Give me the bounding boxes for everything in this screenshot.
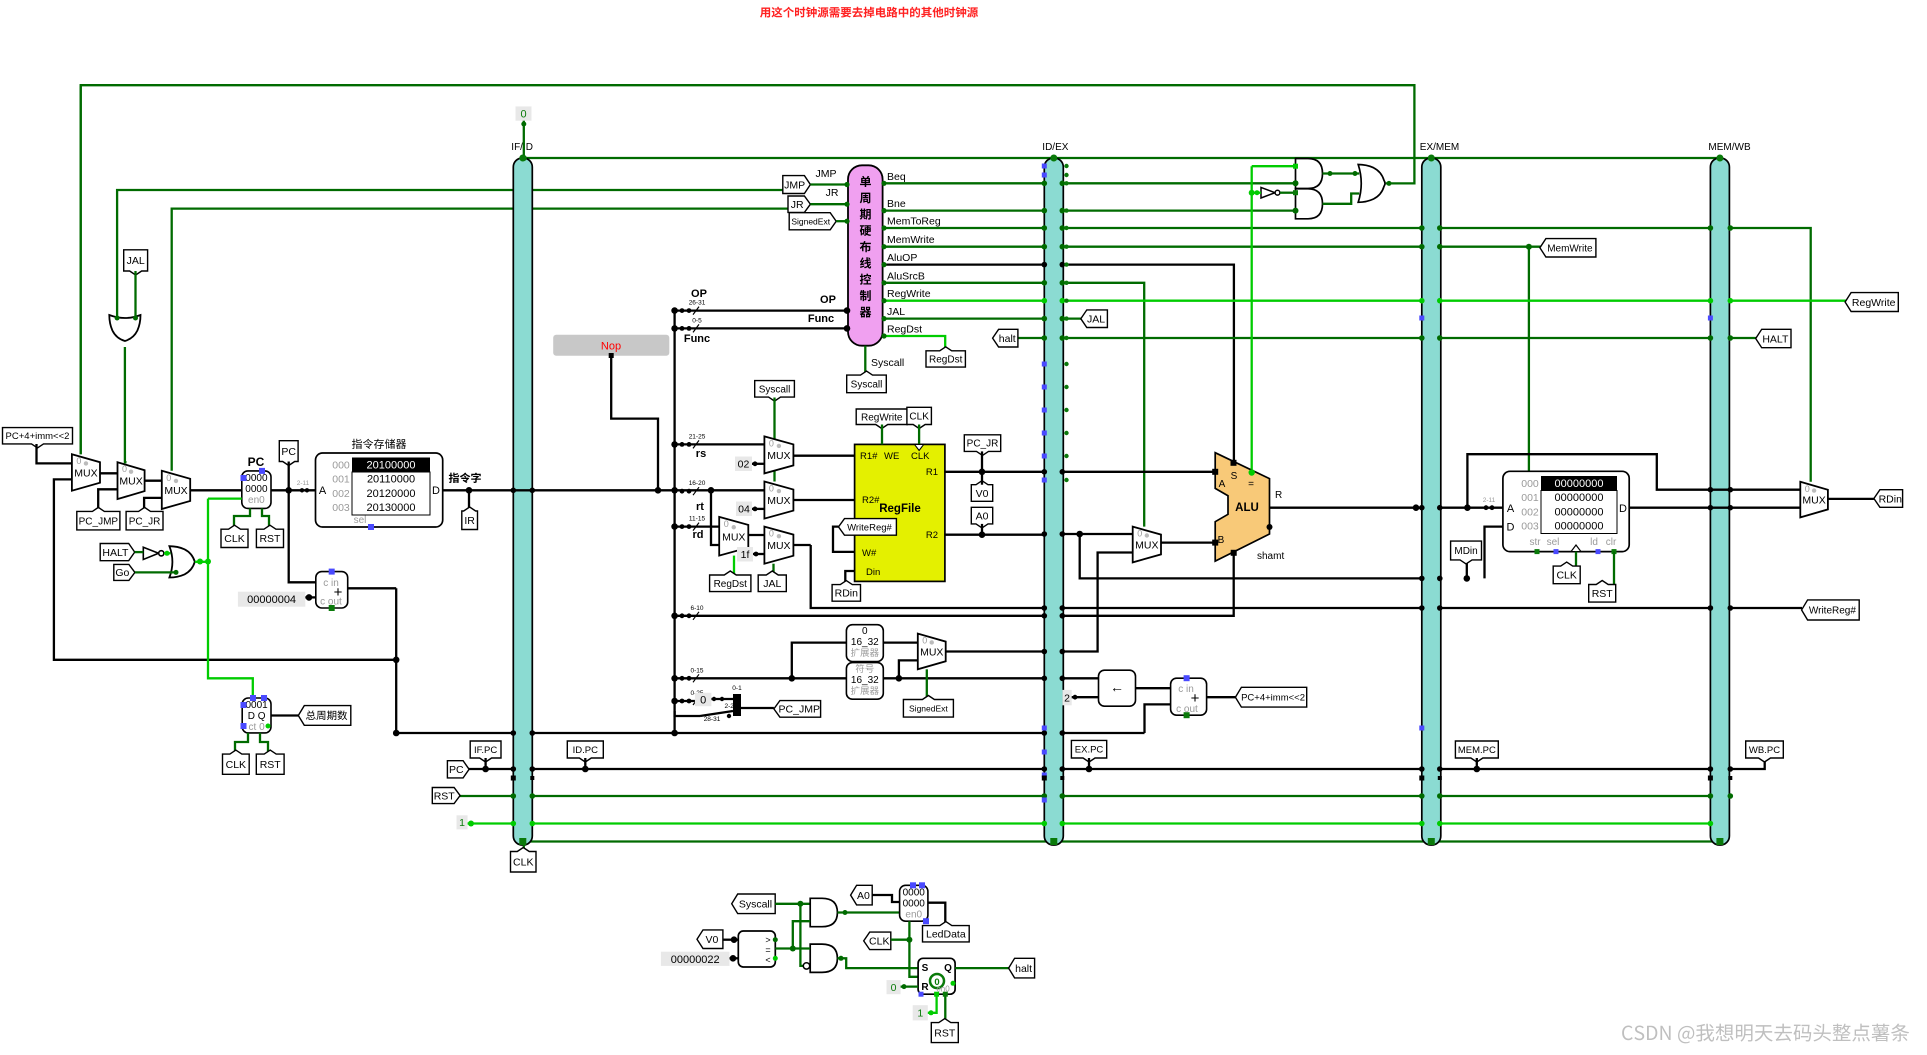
wire counter clk stem [235,733,248,755]
wire halt to not [135,551,144,553]
wire shift out [1136,687,1171,689]
wire mem clk stem [1575,552,1577,567]
svg-text:21-25: 21-25 [689,433,706,440]
svg-text:MUX: MUX [767,495,790,507]
svg-text:RegDst: RegDst [714,579,748,590]
svg-text:A: A [319,485,327,497]
svg-text:RST: RST [260,759,282,771]
tunnel PC above [279,441,298,466]
svg-text:00000022: 00000022 [671,954,720,966]
svg-text:Syscall: Syscall [739,899,772,911]
wire mem A wire [1440,507,1503,509]
mux writeback [1800,482,1828,518]
register LedData [900,885,928,921]
svg-text:0: 0 [520,109,526,121]
svg-text:<: < [765,955,770,965]
svg-text:00000000: 00000000 [1555,506,1604,518]
wire instr vertical bus [673,311,675,733]
wire eq to not [1252,192,1261,194]
svg-text:ld: ld [1590,537,1598,548]
wire mem bypass [1467,454,1800,508]
and-gate bne [1296,189,1323,219]
tunnel ID.PC [567,741,603,762]
svg-text:003: 003 [1521,521,1539,533]
wire or out [1385,182,1387,184]
instruction memory box [316,453,443,527]
wire and1b out [837,911,899,913]
svg-text:R2#: R2# [862,495,880,506]
svg-text:AluOP: AluOP [887,252,917,264]
wire MUX1 sel drop [80,85,82,454]
svg-text:0000: 0000 [245,484,268,495]
tunnel Syscall above mux [755,381,795,402]
constant 00000004 [238,592,305,607]
tunnel RST left [432,788,460,804]
svg-text:OP: OP [691,288,707,300]
tunnel HALT [100,544,135,561]
wire const1 rail [467,822,1711,824]
wire CLK rail [524,840,1719,842]
svg-text:SignedExt: SignedExt [791,216,830,226]
svg-text:PC_JMP: PC_JMP [779,704,820,716]
svg-text:1: 1 [459,817,465,829]
svg-text:RegWrite: RegWrite [887,288,931,300]
wire alu R out [1270,507,1422,509]
svg-text:en0: en0 [905,909,922,920]
not-gate halt inverter [143,547,158,559]
tunnel RST counter [256,750,284,774]
wire latch Q out [955,967,1009,969]
svg-text:Nop: Nop [601,341,621,353]
tunnel WriteReg# source [839,519,897,536]
svg-text:JR: JR [791,199,804,211]
svg-text:0: 0 [1805,484,1810,494]
svg-text:D: D [1619,503,1627,515]
svg-text:002: 002 [1521,506,1539,518]
alu ALU [1215,453,1269,561]
wire imm up-step to zero ext [792,643,847,679]
svg-text:=: = [1248,479,1254,490]
wire JR rail [172,209,794,471]
svg-text:MemWrite: MemWrite [1547,243,1593,254]
wire eq vertical [1251,166,1253,470]
or-gate jump-select OR [109,315,140,341]
svg-text:04: 04 [738,504,750,516]
svg-text:←: ← [1110,679,1124,695]
adder branch target [1171,678,1207,715]
wire RegDst out [883,336,946,352]
svg-text:0000: 0000 [245,473,268,484]
wire clk stem regfile [918,425,920,445]
svg-text:MemToReg: MemToReg [887,216,941,228]
svg-text:CLK: CLK [909,412,929,423]
tunnel RegDst below [710,571,751,592]
svg-text:MUX: MUX [767,450,790,462]
wire idpc stem [584,758,586,769]
wire ctl syscall [864,346,866,376]
svg-text:Syscall: Syscall [851,380,883,391]
svg-text:HALT: HALT [1762,333,1789,345]
wire AluOP [883,265,1234,462]
wire rd slice [675,525,720,527]
wire clk up to reg [908,921,910,940]
svg-text:CLK: CLK [224,533,244,545]
and-gate leddata en [810,898,837,926]
svg-text:str: str [1529,537,1541,548]
tunnel A0 [971,507,992,528]
wire branch-taken rail top [81,85,1415,454]
svg-text:WriteReg#: WriteReg# [847,522,892,533]
wire clk bottom net [891,939,910,941]
svg-text:RST: RST [1592,588,1614,600]
svg-text:0: 0 [76,456,81,466]
tunnel RegDst ctl [926,347,965,367]
svg-text:IF/ID: IF/ID [511,142,533,153]
svg-text:0: 0 [724,519,729,529]
tunnel JAL right of ID/EX [1081,310,1108,328]
svg-text:IR: IR [464,515,475,527]
svg-text:PC+4+imm<<2: PC+4+imm<<2 [1241,693,1305,704]
wire regdst sel [733,556,735,591]
svg-text:PC: PC [449,764,464,776]
wire latch rst [944,994,946,1022]
svg-text:JR: JR [826,187,839,199]
mux rs select [764,436,793,473]
svg-text:en0: en0 [248,495,265,506]
wire const02 [752,463,764,465]
svg-text:R2: R2 [926,530,938,541]
wire rs slice [675,443,765,445]
svg-text:02: 02 [738,459,750,471]
wire mux rd out [748,534,764,536]
svg-text:0: 0 [700,694,706,706]
mux alu srcB [1133,527,1161,563]
wire v0 stem [981,472,983,485]
svg-text:CLK: CLK [513,857,533,869]
svg-text:OP: OP [820,294,836,306]
svg-text:Q: Q [944,963,952,974]
wire MUX1 out [100,472,118,474]
constant 1 latch [913,1005,928,1020]
wire writereg# to W# [833,527,855,552]
pipeline register MEM/WB [1710,158,1729,845]
wire pcjr stem [981,451,983,471]
svg-text:WB.PC: WB.PC [1749,745,1780,756]
svg-text:EX.PC: EX.PC [1075,745,1104,756]
tunnel halt bottom [1009,958,1035,978]
wire PC+4 rail [54,479,396,659]
wire wb mux out [1828,498,1874,500]
svg-text:JMP: JMP [784,179,805,191]
wire rt drop to regdst mux [711,490,719,545]
svg-text:B: B [1218,535,1225,546]
svg-text:PC: PC [248,455,265,469]
wire A to alu [1062,471,1215,473]
svg-text:MEM.PC: MEM.PC [1458,745,1496,756]
tunnel LedData [923,922,970,942]
wire halt rail [1017,337,1757,339]
svg-text:D: D [1507,522,1515,534]
wire en vertical [208,499,253,698]
wire branch target to MUX1 [37,444,72,463]
wire leddata out [928,903,945,926]
svg-text:0-15: 0-15 [690,667,703,674]
svg-text:sel: sel [354,515,367,526]
svg-text:RDin: RDin [1879,493,1902,505]
tunnel A0 bottom [851,885,873,905]
wire en to PC [208,497,242,499]
wire imm slice [675,677,847,679]
svg-text:rs: rs [696,448,706,460]
pipeline register EX/MEM [1422,158,1441,845]
tunnel RDin right [1874,490,1903,508]
mux rt select [764,482,793,519]
sign extender 符号16_32 [846,663,883,700]
svg-text:MEM/WB: MEM/WB [1708,142,1751,153]
svg-text:000: 000 [1521,478,1539,490]
wire OR out to MUX2 sel [125,347,127,462]
wire counter out [271,714,298,716]
svg-text:AluSrcB: AluSrcB [887,270,925,282]
wire j1 [700,711,733,716]
svg-text:20100000: 20100000 [367,460,416,472]
svg-text:D: D [432,485,440,497]
svg-text:0: 0 [769,484,774,494]
tunnel CLK under PC [221,525,248,547]
tunnel PC left of rail [447,761,469,778]
wire writereg out [793,544,810,546]
wire jump slice2 [675,711,700,716]
tunnel PC_JR above R1 [964,435,1000,456]
tunnel PC+4+imm<<2 source [1235,687,1306,707]
svg-text:RegDst: RegDst [887,324,922,336]
pipeline register ID/EX [1044,158,1063,845]
tunnel CLK bottom [864,932,891,950]
wire const1f [753,553,764,555]
constant 0 latch [887,980,901,994]
or-gate run enable [169,546,194,577]
svg-text:0: 0 [769,438,774,448]
wire muxB out [1161,541,1215,543]
tunnel RegWrite above regfile [856,409,907,429]
svg-text:SignedExt: SignedExt [909,703,948,713]
wire mdin step up [1485,527,1503,579]
wire mem clr stem [1613,552,1615,585]
svg-text:00000004: 00000004 [247,594,296,606]
wire Bne [883,209,1296,211]
wire eq to and1 [1252,165,1296,167]
wire MemWrite [883,246,1541,248]
svg-text:ALU: ALU [1235,502,1259,514]
wire MUX3 out to PC [190,489,242,491]
svg-text:Func: Func [684,333,710,345]
svg-text:Bne: Bne [887,198,906,210]
svg-text:S: S [1231,471,1238,482]
mux jal writereg [764,527,793,564]
tunnel RST bottom [931,1019,958,1043]
mux MUX3 jr [162,471,190,509]
tunnel MDin [1451,541,1482,564]
wire Din wire [845,571,854,585]
wire PC tunnel stem [288,462,290,491]
svg-text:1: 1 [917,1008,923,1020]
svg-text:JAL: JAL [1087,313,1105,325]
data memory rows [1541,476,1617,491]
svg-text:0: 0 [891,982,897,994]
wire shamt to alu [1062,552,1233,616]
wire jump slice [675,700,700,702]
wire and2b out [837,958,918,968]
wire PC rail to WB.PC [1730,757,1764,769]
svg-text:0000: 0000 [903,898,926,909]
tunnel PC_JR [126,507,163,530]
wire WriteReg# rail [811,545,1802,608]
svg-text:0000: 0000 [903,887,926,898]
svg-text:0: 0 [166,473,171,483]
wire signedext sel [926,669,928,699]
svg-text:Go: Go [115,567,129,579]
red note text [760,7,978,18]
svg-text:RST: RST [259,533,281,545]
svg-text:CLK: CLK [1556,570,1576,582]
wire OP [675,309,846,311]
tunnel PC_JMP source [774,701,821,718]
svg-text:0: 0 [922,636,927,646]
wire MemWrite drop to memory [1528,247,1530,472]
svg-text:LedData: LedData [926,929,966,941]
svg-text:=: = [765,945,770,955]
svg-text:CLK: CLK [911,451,930,462]
sr-latch halt [918,958,955,994]
wire PC rst stem [262,508,269,529]
wire PC+4 to IF/ID [396,588,1144,733]
svg-text:2-27: 2-27 [724,703,737,710]
tunnel RST mem [1589,581,1616,603]
mux MUX2 jump [118,462,145,499]
svg-text:0: 0 [862,626,868,637]
tunnel MEM.PC [1455,741,1498,762]
clk pin triangle [1571,545,1581,552]
constant 1f [737,547,753,562]
svg-text:2-11: 2-11 [1483,497,1496,504]
tunnel SignedExt ctl [789,213,836,230]
wire rt to mux [675,489,765,491]
wire const2 [1072,696,1099,698]
register file RegFile [855,444,945,581]
tunnel EX.PC [1071,740,1106,762]
wire PC_JR to MUX3 [144,498,162,512]
wire const22 to cmp [730,957,739,959]
svg-text:W#: W# [862,548,877,559]
wire JMP rail [117,190,786,316]
wire jr to ctl [810,203,848,205]
svg-text:MUX: MUX [1802,495,1825,507]
wire PC+4 EX step to adder [1145,704,1171,733]
svg-text:A: A [1507,503,1515,515]
svg-text:0-1: 0-1 [732,685,742,692]
tunnel SignedExt below [903,696,953,718]
svg-text:MUX: MUX [119,476,142,488]
tunnel RST under PC [256,525,283,547]
comparator V0 vs 22 [738,931,775,967]
tunnel Syscall bottom [732,894,776,914]
svg-text:0: 0 [1137,529,1142,539]
svg-text:R: R [1275,490,1282,501]
svg-text:11-15: 11-15 [689,516,706,523]
data memory box [1503,471,1629,551]
wire IF/ID clk stem [523,845,525,852]
svg-text:R1: R1 [926,467,938,478]
svg-text:MUX: MUX [722,531,745,543]
svg-text:ID.PC: ID.PC [573,745,598,756]
tunnel WB.PC [1746,741,1784,762]
svg-text:MUX: MUX [74,467,97,479]
tunnel RDin under regfile [832,581,860,602]
wire flush rail bar tops [524,157,1719,159]
wire v0 to cmp [723,939,738,941]
svg-text:IF.PC: IF.PC [474,745,497,756]
control unit 单周期硬布线控制器 [848,165,883,345]
svg-text:0: 0 [122,464,127,474]
svg-text:16_32: 16_32 [851,637,879,648]
svg-text:0001: 0001 [245,700,268,711]
svg-text:001: 001 [332,474,350,486]
wire a0 to reg [872,895,899,902]
svg-text:A0: A0 [857,890,870,902]
svg-text:RegFile: RegFile [879,503,921,515]
svg-text:EX/MEM: EX/MEM [1420,142,1459,153]
or-gate branch taken [1358,165,1385,203]
wire imm mux out [946,650,1045,652]
svg-text:A0: A0 [976,510,989,522]
svg-text:RST: RST [434,790,456,802]
wire PC clk stem [234,508,250,529]
probe Nop [553,335,669,356]
not-gate eq invert [1261,187,1275,198]
tunnel IF.PC [470,741,501,762]
tunnel JAL below [758,571,786,592]
shifter left [1099,670,1136,706]
svg-text:S: S [922,963,929,974]
adder PC+4 [316,572,348,608]
tunnel PC+4+imm<<2 top-left [3,428,73,448]
tunnel HALT right [1756,329,1791,347]
wire const0 to R [901,985,919,987]
tunnel CLK above regfile [907,407,932,428]
svg-text:6-10: 6-10 [690,605,703,612]
constant 2 shift [1063,690,1072,705]
svg-text:PC_JR: PC_JR [967,439,999,450]
svg-text:000: 000 [332,460,350,472]
splitter jump address [733,694,741,716]
wire and1 out [1323,172,1360,174]
svg-text:CLK: CLK [869,936,889,948]
wire mdin from b [1080,534,1422,578]
svg-text:0: 0 [769,529,774,539]
constant 0 flush [516,106,532,120]
wire R2 out [945,534,1044,536]
wire JAL out [883,317,1082,319]
wire mempc stem [1476,758,1478,769]
wire eq up to and1 [793,921,810,948]
wire RegWrite rail [883,300,1846,302]
svg-text:D Q: D Q [248,711,266,722]
svg-text:1f: 1f [741,549,750,561]
svg-text:A: A [1219,479,1226,490]
svg-text:002: 002 [332,488,350,500]
svg-text:20110000: 20110000 [367,474,415,486]
svg-text:MUX: MUX [1135,540,1158,552]
